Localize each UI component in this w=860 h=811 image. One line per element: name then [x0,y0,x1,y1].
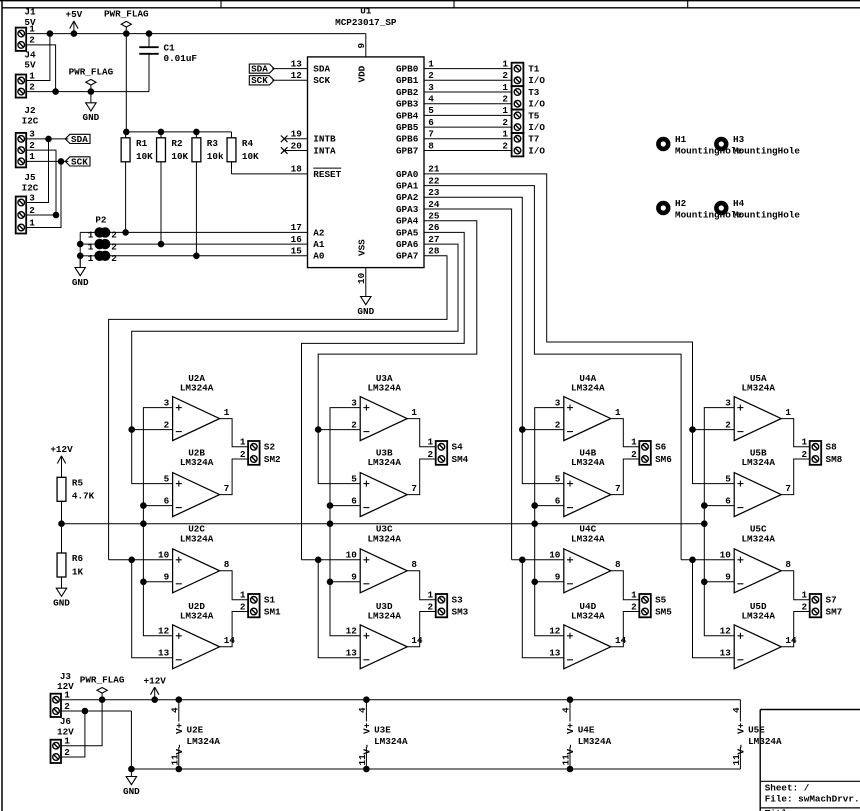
svg-text:3: 3 [351,397,357,408]
svg-text:2: 2 [428,449,434,460]
svg-text:9: 9 [725,572,731,583]
connector S1 [240,590,281,618]
svg-text:LM324A: LM324A [367,611,401,622]
svg-text:GND: GND [83,112,100,123]
wire signal U2A- U2B+ [132,430,173,484]
svg-text:2: 2 [428,70,434,81]
svg-text:2: 2 [111,241,117,252]
svg-text:6: 6 [164,495,170,506]
svg-text:1: 1 [802,590,808,601]
svg-text:PWR_FLAG: PWR_FLAG [104,8,149,19]
svg-text:11: 11 [561,754,572,766]
svg-text:1: 1 [411,407,417,418]
junction [327,503,333,509]
title block [760,710,860,811]
svg-text:14: 14 [785,635,797,646]
svg-text:13: 13 [549,648,561,659]
svg-text:17: 17 [291,222,302,233]
connector P2 label [95,214,107,225]
svg-text:1: 1 [64,736,70,747]
junction [77,241,83,247]
svg-text:R2: R2 [171,138,183,149]
svg-text:LM324A: LM324A [187,736,221,747]
svg-text:3: 3 [428,82,434,93]
svg-text:File: swMachDrvr.s: File: swMachDrvr.s [765,794,860,805]
svg-text:6: 6 [555,495,561,506]
junction [520,427,526,433]
svg-text:GPA0: GPA0 [396,169,419,180]
svg-text:10K: 10K [171,151,188,162]
svg-text:21: 21 [428,164,440,175]
op-amp U3C [346,524,418,593]
svg-text:7: 7 [785,483,791,494]
svg-text:4: 4 [428,94,434,105]
op-amp U5C [720,524,792,593]
svg-text:6: 6 [428,117,434,128]
svg-text:7: 7 [411,483,417,494]
wire output U3D pin14 [407,612,436,647]
svg-text:5: 5 [725,473,731,484]
wire bias U4A+ U4B- U4C- U4D+ [535,408,564,636]
mounting hole H4 [716,198,800,221]
svg-text:T1: T1 [528,64,540,75]
svg-text:2: 2 [240,449,246,460]
svg-text:SM8: SM8 [826,454,843,465]
svg-text:GPB7: GPB7 [396,145,418,156]
jumper P2 row 1 pads [88,227,117,241]
wires GPB0-GPB7 to terminals [424,58,512,151]
svg-text:V+: V+ [736,722,747,734]
jumper P2 row 3 pads [88,251,117,265]
svg-text:GPB5: GPB5 [396,122,419,133]
wire J2.3 SDA [26,138,68,140]
svg-text:GPB4: GPB4 [396,110,419,121]
power flag PWR_FLAG (12V) [80,675,125,700]
mounting hole H3 [716,134,800,157]
junction [690,427,696,433]
svg-text:1: 1 [502,58,508,69]
svg-text:LM324A: LM324A [180,383,214,394]
svg-text:SCK: SCK [71,156,88,167]
svg-text:SM6: SM6 [655,454,672,465]
svg-text:GND: GND [357,306,374,317]
wire GPA0 (pin21) to U5 A/B [424,174,693,430]
power flag PWR_FLAG top [104,8,149,33]
svg-text:1: 1 [29,217,35,228]
svg-text:1: 1 [428,590,434,601]
svg-text:4: 4 [169,707,180,713]
svg-text:2: 2 [29,81,35,92]
svg-text:SDA: SDA [251,64,268,75]
svg-text:1: 1 [502,129,508,140]
svg-text:2: 2 [111,253,117,264]
svg-text:LM324A: LM324A [741,383,775,394]
svg-text:23: 23 [428,187,440,198]
svg-text:VDD: VDD [356,65,367,82]
svg-text:4: 4 [731,707,742,713]
svg-text:1: 1 [631,590,637,601]
wire output U3C pin8 [407,571,436,600]
wire tie U3C+ U3D- [318,560,360,658]
svg-text:+12V: +12V [50,444,73,455]
svg-text:S1: S1 [264,595,276,606]
wire output U2A pin1 [220,419,249,447]
svg-text:2: 2 [502,94,508,105]
svg-text:LM324A: LM324A [180,457,214,468]
svg-text:1: 1 [631,437,637,448]
svg-text:PWR_FLAG: PWR_FLAG [69,66,114,77]
wire +5V rail down [125,34,127,132]
svg-text:5V: 5V [24,60,36,71]
svg-text:LM324A: LM324A [741,457,775,468]
svg-text:12: 12 [291,70,303,81]
svg-text:1K: 1K [72,566,84,577]
junction [567,697,573,703]
junction [99,697,105,703]
svg-text:1: 1 [428,58,434,69]
junction [141,521,147,527]
wire J2.2 down [26,150,56,215]
svg-text:2: 2 [631,601,637,612]
svg-text:LM324A: LM324A [367,533,401,544]
wire output U5A pin1 [781,419,810,447]
global label SDA (U1) [249,64,274,75]
junction [532,521,538,527]
svg-text:R4: R4 [242,138,254,149]
svg-text:GPB3: GPB3 [396,99,419,110]
svg-text:5: 5 [555,473,561,484]
svg-text:GPB0: GPB0 [396,64,419,75]
wire feeder to U5C+ [681,559,734,561]
ground below R6 [53,577,70,609]
svg-text:2: 2 [631,449,637,460]
svg-text:T5: T5 [528,110,540,121]
svg-text:1: 1 [224,407,230,418]
junction [567,766,573,772]
wire signal U3A- U3B+ [318,430,360,484]
svg-text:3: 3 [164,397,170,408]
ground U1 VSS [357,297,374,318]
junction [146,31,152,37]
svg-text:Sheet: /: Sheet: / [765,782,810,793]
junction [152,697,158,703]
junction [158,129,164,135]
resistor R2 [157,132,189,244]
svg-text:2: 2 [502,140,508,151]
wire GPA7 (pin28) to U2 C/D [109,256,447,560]
wire RESET [232,173,308,175]
svg-text:2: 2 [29,140,35,151]
wire bias bus [62,523,705,525]
svg-text:3: 3 [725,397,731,408]
wire J3.2 to J6.2 [61,711,85,757]
svg-text:V-: V- [362,743,373,754]
svg-text:2: 2 [164,419,170,430]
svg-text:14: 14 [615,635,627,646]
junction [702,503,708,509]
svg-text:7: 7 [224,483,230,494]
junction [124,129,130,135]
svg-text:13: 13 [346,648,358,659]
junction [59,521,65,527]
svg-text:18: 18 [291,164,303,175]
svg-text:GND: GND [72,277,89,288]
connector S5 [631,590,672,618]
connector J6 [51,716,75,763]
svg-text:11: 11 [169,754,180,766]
op-amp power pins U3E [357,700,408,769]
op-amp U5A [725,373,791,441]
svg-text:4: 4 [561,707,572,713]
op-amp power pins U4E [561,700,612,769]
svg-text:27: 27 [428,234,439,245]
svg-text:SM3: SM3 [452,606,469,617]
wire GPA1 (pin22) to U5 C/D [424,186,681,560]
connector S2 [240,437,281,465]
svg-text:2: 2 [502,117,508,128]
svg-text:INTA: INTA [313,145,336,156]
mounting hole H2 [658,198,742,221]
svg-text:V+: V+ [174,722,185,734]
svg-text:1: 1 [240,590,246,601]
junction [58,159,64,165]
wire output U2D pin14 [220,612,249,647]
svg-text:8: 8 [411,559,417,570]
connector J3 [51,671,75,717]
junction [77,253,83,259]
svg-text:LM324A: LM324A [748,736,782,747]
svg-text:3: 3 [29,129,35,140]
svg-text:U3E: U3E [374,725,391,736]
svg-text:24: 24 [428,199,440,210]
svg-text:SDA: SDA [71,134,88,145]
resistor R1 [121,132,153,233]
junction [71,31,77,37]
junction [129,557,135,563]
svg-text:SCK: SCK [251,75,268,86]
svg-text:2: 2 [240,601,246,612]
wire output U2C pin8 [220,571,249,600]
op-amp U4C [549,524,621,593]
wire P2 left column [80,232,95,267]
op-amp U4A [555,373,621,441]
wire output U4D pin14 [611,612,640,647]
svg-text:5: 5 [164,473,170,484]
svg-text:14: 14 [411,635,423,646]
svg-text:RESET: RESET [313,169,341,180]
svg-text:LM324A: LM324A [578,736,612,747]
wire output U3A pin1 [407,419,436,447]
svg-text:6: 6 [351,495,357,506]
power +5V [66,9,83,33]
wire GPA6 (pin27) to U2 A/B [132,244,458,430]
ground below PWR_FLAG [83,92,100,124]
svg-text:10K: 10K [136,151,153,162]
junction [46,136,52,142]
wire A2 [109,231,307,233]
svg-text:A1: A1 [313,239,325,250]
junction [364,766,370,772]
wire J1.1 to +5V rail [26,33,366,35]
svg-text:2: 2 [29,35,35,46]
junction [702,521,708,527]
svg-text:LM324A: LM324A [571,533,605,544]
svg-text:VSS: VSS [356,239,367,256]
svg-text:GND: GND [53,598,70,609]
svg-text:V-: V- [174,743,185,754]
svg-text:LM324A: LM324A [571,611,605,622]
svg-text:12: 12 [720,626,732,637]
svg-text:A2: A2 [313,227,325,238]
op-amp U3D [346,601,423,669]
svg-text:8: 8 [785,559,791,570]
junction [327,579,333,585]
svg-text:LM324A: LM324A [180,611,214,622]
svg-text:GPA6: GPA6 [396,239,419,250]
no-connect INTB [281,136,308,143]
svg-text:13: 13 [291,58,303,69]
svg-text:2: 2 [64,701,70,712]
svg-text:LM324A: LM324A [571,457,605,468]
svg-text:MCP23017_SP: MCP23017_SP [335,17,397,28]
svg-text:LM324A: LM324A [367,383,401,394]
svg-text:S8: S8 [826,442,838,453]
wire bias U3A+ U3B- U3C- U3D+ [330,408,360,636]
wire SDA to pin13 [272,68,307,70]
svg-text:SM4: SM4 [452,454,469,465]
svg-text:1: 1 [502,105,508,116]
wire A1 [109,243,307,245]
svg-text:22: 22 [428,175,440,186]
connector S6 [631,437,672,465]
svg-text:3: 3 [555,397,561,408]
op-amp U3B [351,447,417,516]
svg-text:1: 1 [29,70,35,81]
svg-text:GPA5: GPA5 [396,227,419,238]
wire A0 [109,255,307,257]
svg-text:1: 1 [64,690,70,701]
svg-text:GPB2: GPB2 [396,87,419,98]
junction [690,557,696,563]
svg-text:1: 1 [240,437,246,448]
wire J2-J5 tie B [26,161,61,227]
svg-text:10: 10 [346,550,358,561]
svg-text:26: 26 [428,222,440,233]
op-amp driver IC U1 MCP23017_SP [291,6,440,268]
connector S7 [802,590,843,618]
svg-text:V-: V- [736,743,747,754]
ground bottom rail [123,769,140,797]
svg-text:LM324A: LM324A [571,383,605,394]
svg-text:U4E: U4E [578,725,595,736]
junction [532,503,538,509]
svg-text:LM324A: LM324A [374,736,408,747]
wire GPA3 (pin24) to U4 C/D [424,209,512,560]
svg-text:T3: T3 [528,87,540,98]
svg-text:GND: GND [123,786,140,797]
svg-text:4: 4 [357,707,368,713]
svg-text:R1: R1 [136,138,148,149]
svg-text:H3: H3 [733,134,745,145]
junction [194,253,200,259]
svg-text:6: 6 [725,495,731,506]
op-amp U5B [725,447,791,516]
svg-text:13: 13 [720,648,732,659]
svg-text:C1: C1 [164,42,176,53]
svg-text:10K: 10K [242,151,259,162]
wire tie U4C+ U4D- [522,560,564,658]
svg-text:2: 2 [802,601,808,612]
wire tie U2C+ U2D- [132,560,173,658]
svg-text:2: 2 [351,419,357,430]
wire feeder to U3C+ [302,559,361,561]
svg-text:S5: S5 [655,595,667,606]
connector J1 [16,7,36,51]
power flag PWR_FLAG mid [69,66,114,91]
svg-text:20: 20 [291,140,303,151]
svg-text:7: 7 [428,129,434,140]
svg-text:I/O: I/O [528,145,545,156]
wire tie U5C+ U5D- [693,560,735,658]
svg-text:R5: R5 [72,478,84,489]
svg-text:V+: V+ [565,722,576,734]
svg-text:1: 1 [88,241,94,252]
jumper P2 row 2 pads [88,239,117,252]
svg-text:+12V: +12V [144,675,167,686]
svg-text:U2E: U2E [187,725,204,736]
svg-text:INTB: INTB [313,134,336,145]
svg-text:S7: S7 [826,595,837,606]
wire J1.2 [26,45,55,92]
svg-text:12: 12 [549,626,561,637]
svg-text:8: 8 [615,559,621,570]
wire signal U5A- U5B+ [693,430,735,484]
junction [364,697,370,703]
svg-text:4.7K: 4.7K [72,491,95,502]
svg-text:LM324A: LM324A [180,533,214,544]
svg-text:1: 1 [615,407,621,418]
svg-text:28: 28 [428,246,440,257]
svg-text:3: 3 [29,192,35,203]
connector S3 [428,590,469,618]
svg-text:2: 2 [802,449,808,460]
op-amp U5D [720,601,797,669]
svg-text:2: 2 [725,419,731,430]
wire +12V top rail [61,699,740,701]
resistor R6 [57,524,83,588]
wire output U4A pin1 [611,419,640,447]
resistor R3 [192,132,224,256]
svg-text:SCK: SCK [313,75,330,86]
op-amp power pins U5E [731,700,782,769]
wire output U4C pin8 [611,571,640,600]
op-amp power pins U2E [169,700,220,769]
svg-text:A0: A0 [313,251,325,262]
junction [520,557,526,563]
svg-text:S2: S2 [264,442,276,453]
wire output U3B pin7 [407,459,436,495]
svg-text:19: 19 [291,129,303,140]
svg-text:1: 1 [428,437,434,448]
terminal blocks T1/T3/T5/T7 [512,63,546,157]
resistor R4 [227,132,259,174]
wire output U5C pin8 [781,571,810,600]
svg-text:0.01uF: 0.01uF [164,53,198,64]
wire feeder to U2C+ [109,559,173,561]
connector J5 [16,172,39,234]
wire output U5B pin7 [781,459,810,495]
op-amp U2C [158,524,230,593]
